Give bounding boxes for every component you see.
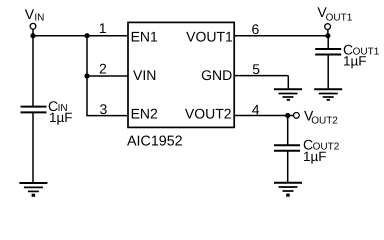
svg-text:AIC1952: AIC1952 xyxy=(127,133,183,149)
svg-text:EN1: EN1 xyxy=(131,28,158,44)
terminal VOUT2 xyxy=(294,113,300,119)
svg-text:1µF: 1µF xyxy=(343,54,367,69)
wire bus to pin3 xyxy=(86,115,128,117)
IC U1 AIC1952 body xyxy=(128,22,234,127)
ground GND2 xyxy=(274,89,302,101)
ground GND1 xyxy=(19,183,47,197)
wire COUT1 to ground xyxy=(327,55,329,90)
junction VOUT1 node xyxy=(325,33,330,38)
terminal VIN xyxy=(30,23,36,35)
svg-text:OUT2: OUT2 xyxy=(311,115,338,126)
junction VIN node xyxy=(30,33,35,38)
wire pin6 to VOUT1 node xyxy=(234,35,328,37)
junction bus top xyxy=(84,33,89,38)
node VOUT1 label xyxy=(317,4,352,23)
node VOUT2 label xyxy=(304,108,338,127)
label COUT1 xyxy=(343,41,380,57)
terminal VOUT1 xyxy=(325,24,331,36)
svg-text:1µF: 1µF xyxy=(303,149,327,164)
wire COUT2 to ground xyxy=(287,151,289,183)
svg-text:EN2: EN2 xyxy=(131,106,158,122)
svg-text:2: 2 xyxy=(99,61,107,77)
wire CIN to ground xyxy=(32,112,34,183)
junction VOUT2 node xyxy=(285,113,290,118)
ground GND4 xyxy=(274,183,302,197)
svg-text:GND: GND xyxy=(201,67,232,83)
svg-text:OUT1: OUT1 xyxy=(326,12,353,23)
label CIN xyxy=(48,98,68,114)
wire pin4 to VOUT2 xyxy=(234,115,293,117)
wire VOUT1 node to COUT1 xyxy=(327,36,329,49)
wire pin5 to ground xyxy=(234,76,288,90)
junction bus pin2 xyxy=(84,73,89,78)
svg-text:1µF: 1µF xyxy=(49,110,73,125)
svg-text:VOUT1: VOUT1 xyxy=(186,28,233,44)
wire VOUT2 node to COUT2 xyxy=(287,116,289,146)
svg-text:VOUT2: VOUT2 xyxy=(185,106,232,122)
wire enable bus vertical xyxy=(86,36,88,116)
svg-text:IN: IN xyxy=(34,12,44,23)
wire VIN down to CIN xyxy=(32,36,34,107)
label COUT2 xyxy=(303,136,340,152)
ground GND3 xyxy=(314,89,342,101)
svg-text:V: V xyxy=(25,6,35,22)
wire VIN to pin1 xyxy=(33,35,129,37)
svg-text:5: 5 xyxy=(252,61,260,77)
svg-text:1: 1 xyxy=(99,20,107,36)
capacitor COUT1 xyxy=(315,49,341,55)
svg-text:VIN: VIN xyxy=(133,67,156,83)
svg-text:3: 3 xyxy=(100,101,108,117)
svg-text:6: 6 xyxy=(252,21,260,37)
wire bus to pin2 xyxy=(87,75,129,77)
node VIN label xyxy=(25,6,45,23)
capacitor COUT2 xyxy=(274,145,300,150)
capacitor CIN xyxy=(21,107,47,113)
